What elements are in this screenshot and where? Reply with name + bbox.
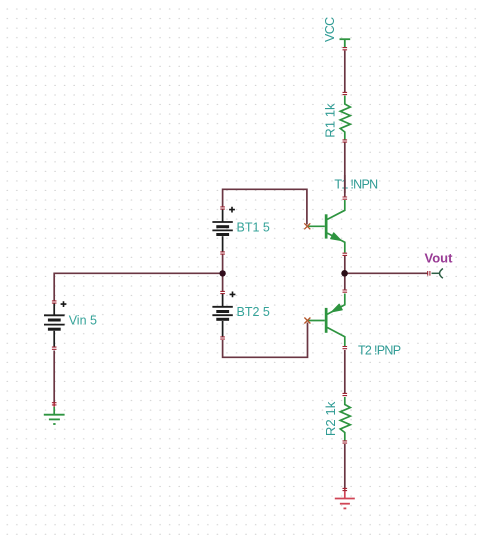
power VCC symbol — [340, 39, 351, 47]
battery BT1 — [212, 209, 232, 252]
svg-text:R2 1k: R2 1k — [323, 401, 338, 436]
pin stub ground left — [53, 402, 55, 407]
pin BT1 bottom — [220, 252, 225, 254]
resistor R2 — [340, 397, 350, 441]
plus sign BT1 — [229, 207, 235, 213]
pin R2 top — [343, 393, 348, 395]
pin R1 top — [343, 92, 348, 94]
svg-text:R1 1k: R1 1k — [323, 103, 338, 138]
plus sign BT2 — [230, 292, 236, 298]
pin marks (red double ticks) — [52, 48, 430, 491]
node X mark T1 base — [304, 223, 310, 229]
pin VCC bottom — [343, 48, 348, 50]
svg-text:T2 !PNP: T2 !PNP — [358, 344, 401, 358]
transistor T1 NPN — [308, 200, 345, 253]
node junction left — [219, 270, 225, 276]
wire VCC to R1 — [344, 51, 346, 93]
ground left (green) — [44, 407, 65, 424]
svg-text:BT2 5: BT2 5 — [237, 305, 270, 319]
resistor R1 — [340, 96, 350, 141]
pin Vin top — [52, 301, 57, 303]
pin BT1 top — [220, 207, 225, 209]
svg-text:Vin 5: Vin 5 — [69, 314, 97, 328]
pin BT2 bottom — [220, 337, 225, 339]
svg-text:Vout: Vout — [425, 251, 454, 266]
wire overdraw above T1 collector — [344, 175, 346, 193]
wire BT1 top to T1 base — [223, 189, 307, 224]
transistor T2 PNP — [308, 294, 345, 348]
wire R2 to ground — [344, 444, 346, 489]
pin T1 emitter — [343, 253, 348, 255]
wire Vin bottom to ground — [53, 351, 55, 404]
plus sign Vin — [61, 301, 67, 307]
voltage source Vin — [44, 303, 65, 347]
pin Vout terminal — [428, 271, 430, 276]
wire BT1 bottom to BT2 top through node — [222, 255, 224, 292]
svg-text:T1 !NPN: T1 !NPN — [334, 177, 378, 191]
pin ground right — [343, 488, 348, 490]
pin T2 collector — [343, 347, 348, 349]
pin BT2 top — [220, 291, 225, 293]
node X mark T2 base — [304, 318, 310, 324]
svg-text:VCC: VCC — [323, 17, 337, 42]
wire node to Vout terminal — [345, 272, 428, 274]
pin ground left — [52, 403, 57, 405]
pin R2 bottom — [343, 441, 348, 443]
pin T1 collector — [343, 197, 348, 199]
pin stub ground right — [344, 488, 346, 491]
pin T2 emitter — [343, 290, 348, 292]
battery BT2 — [212, 294, 232, 337]
terminal Vout — [432, 269, 443, 279]
pin R1 bottom — [343, 140, 348, 142]
wire T1 emitter to T2 emitter through node — [344, 256, 346, 291]
ground right (red, at R2 bottom) — [335, 491, 355, 508]
wire T2 collector to R2 — [344, 350, 346, 394]
wire T2 base to BT2 bottom — [223, 323, 308, 358]
node junction right (Vout node) — [341, 270, 348, 277]
svg-text:BT1 5: BT1 5 — [237, 220, 270, 234]
pin Vin bottom — [52, 347, 57, 349]
wire R1 to T1 collector — [344, 142, 346, 197]
wire left node to Vin — [54, 273, 222, 301]
